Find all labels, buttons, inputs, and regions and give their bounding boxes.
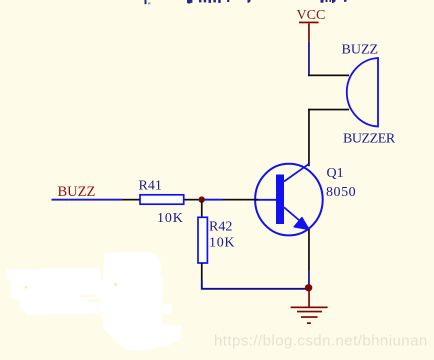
svg-text:BUZZ: BUZZ [342, 43, 379, 58]
wire R41 to junction black [185, 199, 199, 201]
svg-text:BUZZER: BUZZER [343, 132, 396, 147]
transistor Q1 symbol [255, 164, 323, 236]
junction dot A [199, 196, 205, 202]
blob yellow dot [114, 283, 118, 287]
wire junction down to R42 black [201, 201, 203, 218]
svg-text:BUZZ: BUZZ [58, 184, 96, 200]
svg-text:8050: 8050 [326, 185, 356, 200]
wire buzz blue segment [52, 199, 123, 201]
wire junction to base blue segment [204, 199, 223, 201]
wire buzzer bottom to collector black [308, 109, 310, 167]
buzzer LS1 [347, 58, 378, 127]
wire vcc stem navy [308, 41, 310, 76]
svg-text:10K: 10K [209, 236, 235, 251]
wire buzzer top lead black [308, 75, 349, 77]
svg-text:10K: 10K [157, 211, 184, 226]
blob texture marks [80, 294, 100, 303]
svg-text:VCC: VCC [297, 8, 326, 23]
power port VCC [297, 8, 326, 41]
resistor R42 [198, 217, 207, 263]
wire R42 bottom black segment [201, 263, 203, 280]
wire R42 bottom navy corner [202, 280, 308, 289]
svg-text:Q1: Q1 [327, 166, 344, 181]
wire emitter down navy segment [308, 271, 310, 286]
cropped text fragments top edge [145, 0, 347, 4]
svg-text:https://blog.csdn.net/bhniunan: https://blog.csdn.net/bhniunan [214, 333, 428, 350]
resistor R41 [140, 195, 184, 204]
wire emitter down black segment [308, 229, 310, 271]
junction dot B [305, 284, 312, 291]
wire to base black segment [223, 199, 258, 201]
wire buzz black segment [123, 199, 141, 201]
svg-text:R42: R42 [209, 220, 232, 235]
wire buzzer bottom lead black [308, 109, 349, 111]
svg-text:R41: R41 [139, 178, 162, 193]
white erased blob [6, 252, 181, 351]
ground symbol [291, 289, 328, 324]
